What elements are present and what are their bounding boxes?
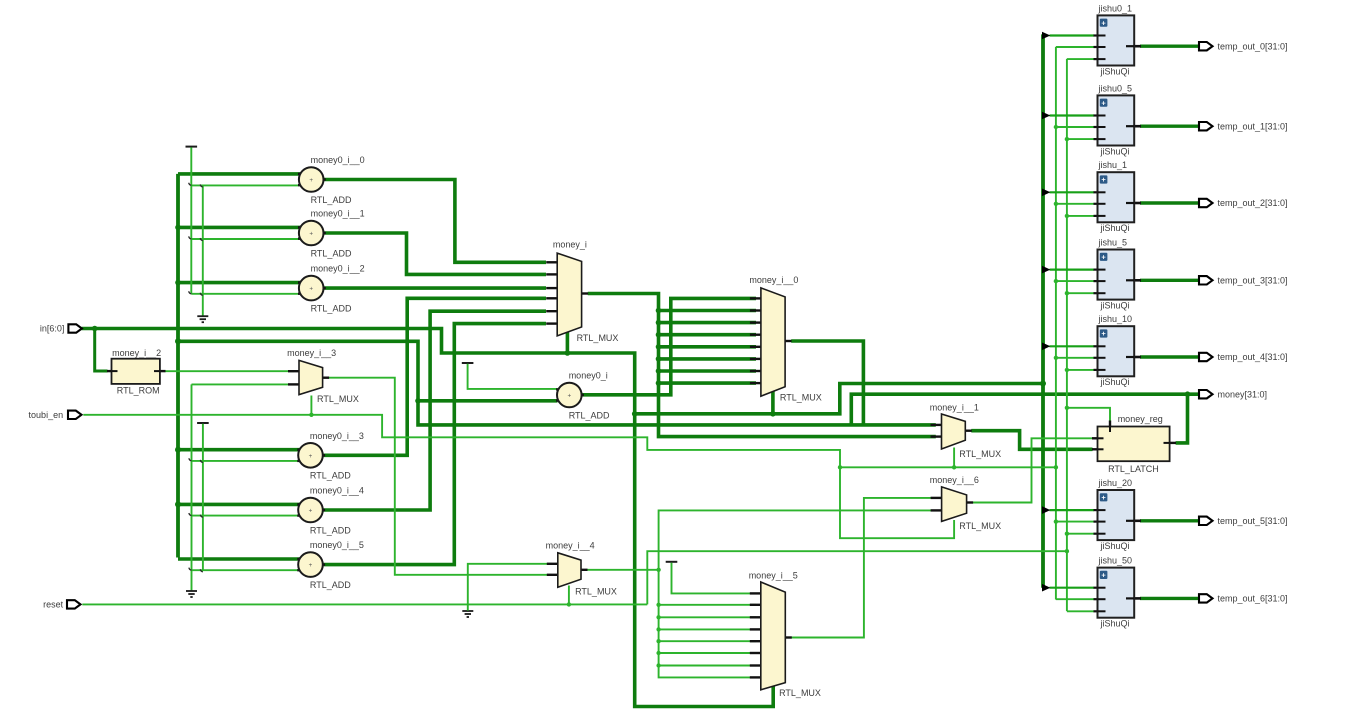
junction dot money_reg gate branch: [1065, 406, 1069, 410]
wire money_i__5 output up to money_i__6 input1: [791, 498, 934, 638]
counter jishu_20 instance icon: [1100, 493, 1108, 501]
svg-text:money_i__2: money_i__2: [112, 348, 161, 358]
counter jishu_50 (jiShuQi) input stubs: [1094, 587, 1105, 589]
wire jishu_5 output to port: [1140, 279, 1200, 282]
RTL_ROM money_i__2 inside pin ticks: [112, 370, 118, 372]
counter jishu_1 (jiShuQi) input stubs: [1094, 191, 1105, 193]
svg-text:temp_out_1[31:0]: temp_out_1[31:0]: [1218, 121, 1288, 131]
svg-text:+: +: [309, 562, 313, 569]
svg-text:jishu_10: jishu_10: [1098, 314, 1133, 324]
wire right column toubi vertical x=1055.9 feeding pin2 of counters: [1055, 47, 1057, 600]
wire money spine to adder money0_i__4 input1: [178, 503, 300, 507]
counter jishu0_1 (jiShuQi) output stub: [1127, 45, 1142, 48]
mux money_i__3 (RTL_MUX) input stubs: [288, 370, 300, 372]
wire money_i__3 input2 from const2 column: [192, 383, 295, 385]
counter jishu0_5 inside pin ticks: [1098, 115, 1106, 117]
svg-text:RTL_ADD: RTL_ADD: [569, 410, 610, 420]
svg-text:money_i: money_i: [553, 239, 587, 249]
svg-text:+: +: [1101, 493, 1106, 502]
wire money_i__5 input5 row: [659, 640, 756, 642]
wire const2 to adder money0_i__4 input2: [192, 515, 301, 517]
adder money0_i__4 (RTL_ADD) input stubs: [297, 503, 304, 505]
svg-text:jiShuQi: jiShuQi: [1100, 66, 1130, 76]
wire clock arrow stub to jishu_5 pin1: [1050, 269, 1095, 271]
wire jishu0_5 output to port: [1140, 124, 1200, 127]
wire money_i__1 select stub: [953, 448, 955, 468]
svg-text:in[6:0]: in[6:0]: [40, 324, 65, 334]
adder money0_i__5 (RTL_ADD) body: [298, 552, 323, 577]
wire money_i__0 input6 row: [659, 357, 757, 361]
wire clock arrow stub to jishu_10 pin1: [1050, 345, 1095, 347]
clock arrowhead at jishu_10: [1042, 343, 1050, 351]
clock arrowhead at jishu0_5: [1042, 112, 1050, 120]
wire jishu_50 output to port: [1140, 597, 1200, 600]
wire jishu_10 output to port: [1140, 355, 1200, 358]
junction dot money_i__0 input7: [656, 368, 662, 374]
svg-text:jishu_1: jishu_1: [1098, 160, 1128, 170]
RTL_LATCH money_reg inside pin ticks: [1098, 437, 1104, 439]
svg-text:money_i__3: money_i__3: [287, 348, 336, 358]
wire right column reset vertical x=1066.9 feeding pin3 of counters: [1066, 59, 1068, 611]
wire money_i__5 input4 row: [659, 628, 756, 630]
RTL_LATCH money_reg body: [1098, 427, 1170, 462]
junction dot money_i__0 input8: [656, 380, 662, 386]
svg-text:temp_out_5[31:0]: temp_out_5[31:0]: [1218, 516, 1288, 526]
wire toubi net to jishu_20 pin2: [1056, 521, 1094, 523]
output port temp_out_5[31:0]: [1199, 517, 1213, 525]
mux money_i (RTL_MUX) input stubs: [546, 261, 558, 263]
junction dot money_i__5 input6: [656, 651, 660, 655]
adder money0_i__0 (RTL_ADD) output stub: [317, 178, 326, 180]
junction dot money spine adder3: [175, 447, 181, 453]
svg-text:money[31:0]: money[31:0]: [1218, 389, 1268, 399]
constant T symbol const1 top: [186, 146, 198, 148]
svg-text:jiShuQi: jiShuQi: [1100, 146, 1130, 156]
wire const1 second vertical to ground: [202, 185, 204, 315]
wire const3 to money0_i input1: [468, 364, 558, 389]
output port temp_out_2[31:0]: [1199, 199, 1213, 207]
svg-text:jiShuQi: jiShuQi: [1100, 223, 1130, 233]
wire jishu_20 output to port: [1140, 519, 1200, 522]
adder money0_i__3 (RTL_ADD) input stubs: [297, 449, 304, 451]
counter jishu_10 (jiShuQi) output stub: [1127, 356, 1142, 359]
counter jishu_20 (jiShuQi) body: [1098, 490, 1135, 540]
mux money_i__6 (RTL_MUX) body: [942, 487, 967, 522]
elbow arcs const1: [189, 183, 192, 186]
counter jishu_50 (jiShuQi) output stub: [1127, 597, 1142, 600]
counter jishu_1 inside pin ticks: [1098, 191, 1106, 193]
junction dot pin3 jishu_10: [1065, 368, 1069, 372]
counter jishu_1 (jiShuQi) output stub: [1127, 202, 1142, 205]
svg-text:+: +: [1101, 98, 1106, 107]
output port money[31:0]: [1199, 390, 1213, 398]
svg-text:RTL_ROM: RTL_ROM: [117, 385, 160, 395]
junction dot pin2 jishu0_5: [1054, 125, 1058, 129]
junction dot money_i__0 input4: [656, 332, 662, 338]
wire const1 to adder money0_i__0 input2: [191, 184, 300, 186]
svg-text:+: +: [567, 393, 571, 400]
svg-text:jiShuQi: jiShuQi: [1100, 301, 1130, 311]
junction dot toubi row at x=840: [838, 465, 842, 469]
adder money0_i__3 (RTL_ADD) output stub: [317, 454, 326, 456]
wire money_i__5 input2 row: [659, 604, 756, 606]
RTL_ROM money_i__2 body: [112, 359, 160, 384]
svg-text:money0_i__1: money0_i__1: [311, 209, 365, 219]
wire money_reg gate from pin3 vertical branch: [1067, 408, 1110, 421]
input port in[6:0]: [68, 324, 82, 332]
wire toubi_en route to selects: [83, 415, 954, 538]
adder money0_i__4 (RTL_ADD) output stub: [317, 509, 326, 511]
wire money_i__3 select stub: [310, 396, 312, 415]
wire RTL_ROM output to money_i__3 input1: [165, 370, 295, 372]
counter jishu_20 (jiShuQi) input stubs: [1094, 509, 1105, 511]
svg-text:RTL_ADD: RTL_ADD: [311, 248, 352, 258]
wire toubi net to jishu_5 pin2: [1056, 280, 1094, 282]
wire reset net to jishu_50 pin3: [1067, 610, 1094, 612]
svg-text:RTL_MUX: RTL_MUX: [317, 394, 359, 404]
wire money_i__0 input7 row: [659, 369, 757, 373]
wire money_reg output up to money bus: [1176, 394, 1188, 443]
clock arrowhead at jishu_20: [1042, 506, 1050, 514]
svg-text:jiShuQi: jiShuQi: [1100, 377, 1130, 387]
junction dot money_i__0 input3: [656, 320, 662, 326]
svg-text:money0_i__3: money0_i__3: [310, 431, 364, 441]
svg-text:money0_i: money0_i: [569, 371, 608, 381]
counter jishu0_5 (jiShuQi) input stubs: [1094, 114, 1105, 116]
svg-text:RTL_MUX: RTL_MUX: [577, 333, 619, 343]
svg-text:RTL_ADD: RTL_ADD: [310, 580, 351, 590]
svg-text:+: +: [309, 286, 313, 293]
wire right column clock spine x=1043: [1041, 34, 1045, 587]
wire reset net to jishu_20 pin3: [1067, 533, 1094, 535]
svg-text:+: +: [1101, 571, 1106, 580]
junction dot money_i__1 select: [952, 465, 956, 469]
mux money_i__4 (RTL_MUX) output stub: [581, 569, 588, 571]
wire const4 to money_i__5 input1: [672, 563, 757, 594]
mux money_i__0 (RTL_MUX) output stub: [785, 340, 792, 342]
svg-text:jishu_20: jishu_20: [1098, 478, 1133, 488]
svg-text:RTL_MUX: RTL_MUX: [780, 392, 822, 402]
svg-text:+: +: [1101, 175, 1106, 184]
wire money spine to adder money0_i__0 input1: [178, 172, 300, 176]
clock arrowhead at jishu0_1: [1042, 32, 1050, 40]
wire money_i__6 output up to money_reg input1: [973, 438, 1093, 502]
input port toubi_en: [68, 411, 82, 419]
counter jishu_50 inside pin ticks: [1098, 587, 1106, 589]
junction dot money_i__5 input4: [656, 627, 660, 631]
mux money_i__4 (RTL_MUX) input stubs: [547, 563, 559, 565]
wire money_i__3 output down to money_i__4 input2: [329, 378, 552, 575]
svg-text:reset: reset: [43, 600, 64, 610]
wire toubi net to jishu0_5 pin2: [1056, 126, 1094, 128]
counter jishu_20 (jiShuQi) output stub: [1127, 519, 1142, 522]
wire reset jog up to right column pin3 net: [647, 551, 1067, 604]
clock arrowhead at jishu_1: [1042, 189, 1050, 197]
svg-text:+: +: [309, 508, 313, 515]
junction dot select net joins right column vertical: [1040, 381, 1046, 387]
wire jishu_1 output to port: [1140, 201, 1200, 204]
wire money_i__0 select stub down: [771, 392, 775, 414]
junction dot money_i__0 input6: [656, 356, 662, 362]
counter jishu0_1 inside pin ticks: [1098, 35, 1106, 37]
wire const2 to adder money0_i__5 input2: [192, 569, 301, 571]
counter jishu_10 instance icon: [1100, 329, 1108, 337]
wire clock arrow stub to jishu_1 pin1: [1050, 191, 1095, 193]
adder money0_i__2 (RTL_ADD) body: [299, 276, 324, 301]
junction dot money_i__4 select on reset row: [567, 602, 571, 606]
svg-text:money0_i__2: money0_i__2: [311, 264, 365, 274]
wire money_i__4 output to money0_i-net vertical: [587, 569, 659, 571]
wire reset net to jishu_10 pin3: [1067, 369, 1094, 371]
output port temp_out_3[31:0]: [1199, 276, 1213, 284]
wire money spine to adder money0_i__3 input1: [178, 448, 300, 452]
junction dot money spine adder1: [175, 225, 181, 231]
wire reset net to jishu_1 pin3: [1067, 215, 1094, 217]
svg-text:money_i__4: money_i__4: [546, 540, 595, 550]
counter jishu_10 (jiShuQi) input stubs: [1094, 345, 1105, 347]
adder money0_i__5 (RTL_ADD) input stubs: [297, 558, 304, 560]
wire toubi net to jishu_10 pin2: [1056, 357, 1094, 359]
counter jishu_50 (jiShuQi) body: [1098, 568, 1135, 618]
wire toubi net to jishu_50 pin2: [1056, 598, 1094, 600]
svg-text:temp_out_6[31:0]: temp_out_6[31:0]: [1218, 594, 1288, 604]
wire clock arrow stub to jishu0_5 pin1: [1050, 114, 1095, 116]
wire toubi select row to right column: [840, 466, 1056, 468]
wire money_i__0 input2 row: [659, 309, 757, 313]
wire money row riser x=851.3 and money output row to port: [851, 394, 1199, 425]
wire money_i__0 input4 row: [659, 333, 757, 337]
svg-text:+: +: [309, 177, 313, 184]
wire money spine to adder money0_i__1 input1: [178, 226, 300, 230]
counter jishu_50 instance icon: [1100, 571, 1108, 579]
svg-text:jiShuQi: jiShuQi: [1100, 541, 1130, 551]
clock arrowhead at jishu_5: [1042, 266, 1050, 274]
counter jishu_20 inside pin ticks: [1098, 509, 1106, 511]
svg-text:temp_out_3[31:0]: temp_out_3[31:0]: [1218, 276, 1288, 286]
wire in[6:0] branch down to RTL_ROM input: [95, 329, 108, 372]
wire money_i__4 select stub: [568, 586, 570, 605]
adder money0_i__2 (RTL_ADD) input stubs: [298, 281, 305, 283]
svg-text:temp_out_0[31:0]: temp_out_0[31:0]: [1218, 41, 1288, 51]
wire reset net to jishu0_1 pin3: [1067, 58, 1094, 60]
svg-text:money_reg: money_reg: [1118, 414, 1163, 424]
svg-text:money0_i__0: money0_i__0: [311, 155, 365, 165]
wire money0_i-net vertical x=658.6 with top corner to money_i__6 input2: [659, 510, 935, 677]
mux money_i__1 (RTL_MUX) output stub: [965, 430, 972, 432]
junction dot select row at x=634.7: [632, 411, 638, 417]
wire money row from spine to x=418 and down to money_i__1 input1 row: [178, 341, 936, 425]
junction dot money_i__0 input2: [656, 308, 662, 314]
wire clock arrow stub to jishu_20 pin1: [1050, 509, 1095, 511]
svg-text:money0_i__5: money0_i__5: [310, 540, 364, 550]
junction dot money_i__0 select: [770, 411, 776, 417]
counter jishu0_1 (jiShuQi) body: [1098, 15, 1135, 65]
svg-text:RTL_ADD: RTL_ADD: [310, 525, 351, 535]
junction dot money_i__5 input5: [656, 639, 660, 643]
svg-text:+: +: [1101, 329, 1106, 338]
adder money0_i (RTL_ADD) input stubs: [556, 388, 563, 390]
wire clock arrow stub to jishu0_1 pin1: [1050, 34, 1095, 36]
counter jishu_5 (jiShuQi) input stubs: [1094, 269, 1105, 271]
wire money0_i input2 row from junction: [418, 399, 558, 403]
wire money_i__5 input7 row: [659, 665, 756, 667]
constant T symbol const3 for money0_i input1: [462, 362, 474, 364]
svg-text:RTL_ADD: RTL_ADD: [310, 471, 351, 481]
junction dot reset joins pin3 vertical: [1065, 549, 1069, 553]
wire money_i__0 input3 row: [659, 321, 757, 325]
wire ground const up to money_i__4 input1: [468, 564, 552, 611]
svg-text:RTL_MUX: RTL_MUX: [779, 688, 821, 698]
wire const2 to adder money0_i__3 input2: [192, 460, 301, 462]
adder money0_i__2 (RTL_ADD) output stub: [317, 287, 326, 289]
wire toubi net to jishu_1 pin2: [1056, 203, 1094, 205]
counter jishu_10 (jiShuQi) body: [1098, 326, 1135, 376]
output port temp_out_1[31:0]: [1199, 122, 1213, 130]
counter jishu_1 (jiShuQi) body: [1098, 172, 1135, 222]
svg-text:RTL_LATCH: RTL_LATCH: [1108, 464, 1159, 474]
svg-text:money_i__0: money_i__0: [749, 275, 798, 285]
svg-text:jishu_50: jishu_50: [1098, 556, 1133, 566]
counter jishu_10 inside pin ticks: [1098, 345, 1106, 347]
mux money_i__6 (RTL_MUX) output stub: [966, 501, 973, 503]
ground symbol below const2 column: [186, 590, 197, 592]
output port temp_out_0[31:0]: [1199, 42, 1213, 50]
svg-text:RTL_ADD: RTL_ADD: [311, 303, 352, 313]
svg-text:money_i__6: money_i__6: [930, 475, 979, 485]
wire reset net to jishu_5 pin3: [1067, 292, 1094, 294]
counter jishu_5 inside pin ticks: [1098, 269, 1106, 271]
mux money_i__5 (RTL_MUX) output stub: [785, 636, 792, 638]
adder money0_i__1 (RTL_ADD) input stubs: [298, 226, 305, 228]
counter jishu0_5 instance icon: [1100, 99, 1108, 107]
wire adder money0_i__4 output up to money_i input5: [322, 311, 546, 510]
wire adder money0_i__3 output up to money_i input4: [322, 298, 546, 455]
junction dot pin3 jishu_5: [1065, 291, 1069, 295]
junction dot money_i__0 input5: [656, 344, 662, 350]
RTL_ROM money_i__2 input stub: [107, 370, 117, 372]
wire money_i__5 input6 row: [659, 652, 756, 654]
mux money_i__5 (RTL_MUX) input stubs: [750, 592, 762, 594]
junction dot money row at spine: [175, 338, 181, 344]
junction dot money_i select: [565, 350, 571, 356]
mux money_i__3 (RTL_MUX) output stub: [322, 377, 329, 379]
svg-text:RTL_MUX: RTL_MUX: [959, 521, 1001, 531]
clock arrowhead at jishu_50: [1042, 584, 1050, 592]
junction dot pin3 jishu_20: [1065, 532, 1069, 536]
counter jishu_5 instance icon: [1100, 253, 1108, 261]
RTL_ROM money_i__2 output stub: [156, 370, 166, 372]
mux money_i__0 (RTL_MUX) input stubs: [750, 297, 762, 299]
mux money_i__1 (RTL_MUX) input stubs: [931, 424, 943, 426]
wire money spine to adder money0_i__2 input1: [178, 281, 300, 285]
svg-text:temp_out_4[31:0]: temp_out_4[31:0]: [1218, 352, 1288, 362]
wire const1 to adder money0_i__1 input2: [191, 238, 300, 240]
wire money_i__0 input8 row: [659, 381, 757, 385]
mux money_i__3 (RTL_MUX) body: [299, 360, 323, 394]
counter jishu_5 (jiShuQi) output stub: [1127, 279, 1142, 282]
wire adder money0_i__5 output up to money_i input6: [322, 324, 546, 565]
adder money0_i__1 (RTL_ADD) body: [299, 221, 324, 246]
svg-text:jiShuQi: jiShuQi: [1100, 619, 1130, 629]
adder money0_i__3 (RTL_ADD) body: [298, 443, 323, 468]
junction dot money0_i input2: [415, 398, 421, 404]
junction dot money spine adder2: [175, 280, 181, 286]
wire money_i__5 input3 row: [659, 616, 756, 618]
svg-text:money_i__5: money_i__5: [749, 571, 798, 581]
svg-text:temp_out_2[31:0]: temp_out_2[31:0]: [1218, 198, 1288, 208]
wire money_i select stub down: [566, 331, 570, 353]
svg-text:jishu0_5: jishu0_5: [1098, 83, 1133, 93]
svg-text:RTL_MUX: RTL_MUX: [575, 587, 617, 597]
junction dot toubi net up right column: [1054, 465, 1058, 469]
adder money0_i__1 (RTL_ADD) output stub: [317, 232, 326, 234]
junction dot pin2 jishu_10: [1054, 356, 1058, 360]
mux money_i__4 (RTL_MUX) body: [558, 553, 581, 588]
junction dot pin3 jishu_1: [1065, 214, 1069, 218]
wire money spine to adder money0_i__5 input1: [178, 557, 300, 561]
junction dot money_i__3 select: [309, 413, 313, 417]
counter jishu0_5 (jiShuQi) body: [1098, 95, 1135, 145]
wire money_i__1 output to money_reg input2: [971, 431, 1092, 450]
ground symbol below const1 column: [197, 315, 208, 317]
wire reset net to jishu0_5 pin3: [1067, 138, 1094, 140]
counter jishu_5 (jiShuQi) body: [1098, 250, 1135, 300]
adder money0_i__0 (RTL_ADD) input stubs: [298, 173, 305, 175]
svg-text:+: +: [309, 231, 313, 238]
junction dot pin2 jishu_20: [1054, 519, 1058, 523]
wire money_i__0 input5 row: [659, 345, 757, 349]
junction dot money_i__5 input2: [656, 603, 660, 607]
counter jishu_1 instance icon: [1100, 175, 1108, 183]
elbow arcs const2: [189, 458, 192, 461]
svg-text:jishu_5: jishu_5: [1098, 238, 1128, 248]
wire const1 to adder money0_i__2 input2: [191, 293, 300, 295]
wire money spine vertical x=178: [176, 174, 180, 558]
svg-text:RTL_ADD: RTL_ADD: [311, 195, 352, 205]
adder money0_i__4 (RTL_ADD) body: [298, 498, 323, 523]
wire toubi net to jishu0_1 pin2: [1056, 46, 1094, 48]
mux money_i__5 (RTL_MUX) body: [761, 582, 786, 690]
constant T symbol const4 for money_i__5 input1: [666, 561, 678, 563]
mux money_i (RTL_MUX) output stub: [581, 292, 588, 294]
wire in[6:0] main route: port to select net spine, down and across bottom to money_i__5 select: [82, 329, 774, 707]
wire adder money0_i__0 output to money_i input1: [323, 180, 547, 263]
RTL_LATCH money_reg input stubs: [1092, 437, 1103, 439]
svg-text:jishu0_1: jishu0_1: [1098, 3, 1133, 13]
wire jishu0_1 output to port: [1140, 45, 1200, 48]
wire clock arrow stub to jishu_50 pin1: [1050, 587, 1095, 589]
counter jishu0_5 (jiShuQi) output stub: [1127, 125, 1142, 128]
wire adder money0_i__1 output to money_i input2: [323, 233, 547, 274]
RTL_LATCH money_reg output stub: [1165, 442, 1177, 444]
adder money0_i (RTL_ADD) body: [557, 383, 582, 408]
mux money_i__1 (RTL_MUX) body: [942, 414, 966, 449]
wire const2 vertical x=191.5 down to ground: [191, 384, 193, 590]
junction dot pin2 jishu_5: [1054, 279, 1058, 283]
output port temp_out_4[31:0]: [1199, 353, 1213, 361]
svg-text:money_i__1: money_i__1: [930, 403, 979, 413]
adder money0_i__5 (RTL_ADD) output stub: [317, 563, 326, 565]
junction dot money_i__4 output joins vertical: [656, 568, 660, 572]
wire money_i__0 output down to money_i__1 input1 row: [791, 341, 863, 425]
ground symbol const for money_i__4 input1: [462, 610, 473, 612]
svg-text:+: +: [1101, 18, 1106, 27]
svg-text:RTL_MUX: RTL_MUX: [959, 449, 1001, 459]
mux money_i__6 (RTL_MUX) input stubs: [931, 497, 943, 499]
junction dot in[6:0] branch: [92, 326, 98, 332]
junction dot money spine adder4: [175, 501, 181, 507]
svg-text:toubi_en: toubi_en: [29, 410, 64, 420]
